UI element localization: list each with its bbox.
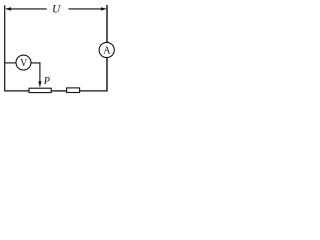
svg-text:A: A — [103, 46, 111, 57]
svg-text:V: V — [20, 58, 28, 69]
wire: right vertical conductor lower segment — [106, 58, 108, 92]
svg-text:U: U — [52, 4, 61, 16]
wire: bottom conductor left segment — [5, 90, 29, 92]
wire: bottom conductor right segment — [80, 90, 107, 92]
wire: voltmeter right lead to wiper — [31, 63, 40, 82]
rheostat P body — [29, 88, 51, 92]
voltmeter V — [16, 55, 31, 70]
U dimension arrow left segment — [5, 7, 47, 10]
resistor R body — [67, 88, 80, 93]
ammeter A — [99, 42, 114, 57]
svg-text:P: P — [43, 76, 50, 87]
wiper arrow onto rheostat P — [38, 81, 41, 87]
wire: voltmeter left lead — [5, 62, 16, 64]
wire: right vertical conductor upper segment — [106, 5, 108, 43]
wire: bottom conductor middle segment — [52, 90, 67, 92]
U dimension arrow right segment — [68, 7, 106, 10]
wire: left vertical conductor — [4, 5, 6, 91]
